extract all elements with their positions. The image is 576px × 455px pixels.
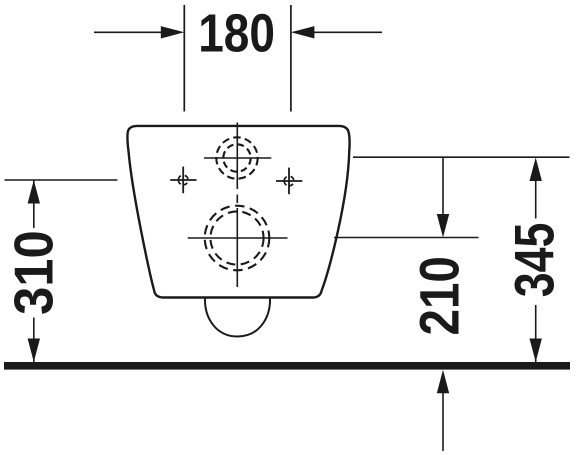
dim 210: lower shaft below floor	[442, 391, 444, 451]
outlet pipe (bottom arc)	[205, 299, 270, 337]
dim 310: top arrowhead	[28, 180, 40, 204]
dim 310: dimension line upper segment	[33, 180, 35, 228]
dim 310: top extension line	[5, 179, 118, 181]
right mounting hole center mark	[276, 168, 302, 195]
flush hole: outer dashed circle	[216, 137, 257, 178]
dim 180: left extension line	[183, 5, 185, 112]
dim 180: left dimension line	[94, 31, 168, 33]
flush hole: inner dashed circle	[223, 144, 250, 171]
dim 210: upper arrowhead (points down)	[437, 214, 449, 238]
outlet hole: outer dashed circle	[205, 206, 270, 271]
outlet hole: horizontal centerline	[188, 237, 288, 239]
dim 180: right dimension line	[307, 31, 382, 33]
left mounting hole center mark	[170, 167, 196, 194]
dim 210: lower arrowhead below floor (points up)	[437, 370, 449, 394]
dim 310: bottom arrowhead	[28, 339, 40, 363]
outlet hole: inner dashed circle	[210, 211, 263, 264]
dim 310: dimension line lower segment	[33, 318, 35, 363]
svg-text:345: 345	[503, 223, 566, 298]
vertical centerline	[236, 123, 238, 288]
dim 345: lower shaft	[535, 305, 537, 362]
svg-text:210: 210	[409, 256, 471, 335]
svg-text:180: 180	[198, 3, 275, 63]
dim 345: upper arrowhead (points up)	[530, 158, 542, 182]
svg-text:310: 310	[4, 230, 65, 315]
dim 180: right extension line	[290, 5, 292, 112]
body outline (toilet rear view)	[127, 126, 349, 298]
dim 180: left arrowhead	[161, 26, 185, 38]
dim 210: upper shaft	[442, 157, 444, 216]
dim 210: lower extension line (outlet center)	[334, 237, 479, 239]
flush hole: horizontal centerline	[204, 157, 271, 159]
dim 345: upper shaft	[535, 179, 537, 219]
dim 180: right arrowhead	[291, 26, 315, 38]
floor line	[4, 362, 570, 370]
dim 345: lower arrowhead (points down)	[530, 339, 542, 363]
dim 345 / 210: upper extension line (flush center)	[353, 156, 570, 158]
